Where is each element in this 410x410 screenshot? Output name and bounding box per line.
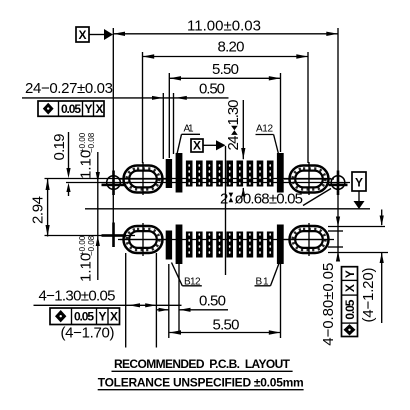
ext line right oval x=308 bbox=[307, 52, 309, 163]
dim line pad length x=243.3 bbox=[242, 100, 244, 159]
bottom hole row line y=235.5 bbox=[45, 235, 136, 237]
pad B1 bbox=[277, 225, 284, 265]
pad A12 bbox=[277, 153, 284, 193]
svg-text:5.50: 5.50 bbox=[212, 61, 239, 78]
dim 4-0.80±0.05 rotated text bbox=[320, 263, 337, 346]
bottom oval row line y=239.5 bbox=[120, 239, 330, 241]
dim 5.50 line bbox=[169, 77, 280, 79]
svg-text:0.05: 0.05 bbox=[74, 310, 94, 324]
dim 0.50 bottom line bbox=[179, 309, 228, 311]
oval pad top-right bbox=[284, 162, 334, 195]
pad A9 bbox=[247, 161, 254, 187]
svg-text:Y: Y bbox=[343, 270, 357, 278]
bottom ext lines from oval slot bbox=[125, 253, 127, 348]
svg-text:24−0.27±0.03: 24−0.27±0.03 bbox=[25, 80, 113, 97]
ext line left oval x=142.5 bbox=[142, 52, 144, 163]
pad B8 bbox=[206, 232, 213, 258]
pad B12col1 bbox=[166, 231, 172, 260]
pad B11 bbox=[176, 225, 183, 265]
dim 1.10 +0.00/-0.08 rotated text top bbox=[78, 132, 97, 179]
ext line right hole lower part bbox=[337, 170, 339, 256]
dim 8.20 line bbox=[143, 56, 309, 58]
pad A3 bbox=[186, 161, 193, 187]
gdt frame bottom-left bbox=[50, 308, 120, 325]
pad B2 bbox=[267, 232, 274, 258]
bottom-right oval ext lines bbox=[328, 226, 385, 228]
pad A4 bbox=[196, 161, 203, 187]
pad B10 bbox=[186, 232, 193, 258]
dim 11.00 line bbox=[113, 33, 338, 35]
dim 0.19 line bbox=[68, 132, 70, 174]
svg-text:RECOMMENDED P.C.B. LAYOUT: RECOMMENDED P.C.B. LAYOUT bbox=[114, 357, 291, 371]
dim 1.10 line bottom bbox=[96, 236, 100, 247]
pad B4 bbox=[247, 232, 254, 258]
dim 24*1.30 rotated text bbox=[225, 100, 242, 151]
gdt frame right vertical bbox=[342, 267, 358, 337]
top oval row line y=178.5 bbox=[45, 178, 332, 180]
svg-text:(4−1.70): (4−1.70) bbox=[61, 325, 115, 342]
svg-text:−0.08: −0.08 bbox=[87, 132, 96, 153]
svg-text:0.05: 0.05 bbox=[61, 102, 81, 116]
svg-text:0.19: 0.19 bbox=[51, 134, 68, 161]
svg-text:Y: Y bbox=[85, 102, 93, 116]
dim (4-1.20) line x=381.7 bbox=[381, 210, 383, 226]
svg-text:1.30: 1.30 bbox=[225, 100, 242, 126]
pad B9 bbox=[196, 232, 203, 258]
dim 5.50 bottom line bbox=[169, 332, 280, 334]
svg-text:X: X bbox=[96, 102, 104, 116]
pad A8 bbox=[237, 161, 244, 187]
pads bottom row bbox=[166, 225, 284, 265]
datum X flag top-left bbox=[76, 27, 113, 42]
dim 0.19 rotated text bbox=[51, 134, 68, 161]
datum Y flag right bbox=[352, 172, 366, 209]
svg-text:ø0.68±0.05: ø0.68±0.05 bbox=[235, 191, 304, 208]
pads top row bbox=[166, 153, 284, 193]
pad A2 bbox=[176, 153, 183, 193]
pad A11 bbox=[267, 161, 274, 187]
ext line right hole x=338 bbox=[337, 28, 339, 170]
svg-text:A1: A1 bbox=[184, 124, 194, 135]
ref dim (4-1.20) rotated text bbox=[360, 268, 377, 323]
svg-text:Y: Y bbox=[355, 176, 363, 190]
svg-text:+0.00: +0.00 bbox=[78, 235, 87, 256]
svg-text:2: 2 bbox=[220, 191, 228, 208]
hole top-left ø0.68 bbox=[107, 176, 121, 190]
svg-text:5.50: 5.50 bbox=[213, 317, 240, 334]
svg-text:4−1.30±0.05: 4−1.30±0.05 bbox=[39, 288, 116, 305]
svg-text:0.50: 0.50 bbox=[199, 81, 225, 98]
bottom ext lines from pads bbox=[168, 264, 170, 338]
svg-text:(4−1.20): (4−1.20) bbox=[360, 268, 377, 323]
ext line left hole lower part bbox=[112, 170, 114, 247]
dim 4-0.80 arrows on x=338 bbox=[336, 217, 340, 228]
center horizontal line datum Y bbox=[85, 208, 370, 210]
svg-text:−0.08: −0.08 bbox=[87, 235, 96, 256]
pad B5 bbox=[237, 232, 244, 258]
svg-text:1.10: 1.10 bbox=[78, 253, 95, 282]
dim 2.94 rotated text bbox=[30, 196, 47, 224]
hole top-right ø0.68 bbox=[331, 176, 345, 190]
pad A10 bbox=[257, 161, 264, 187]
svg-text:1.10: 1.10 bbox=[78, 150, 95, 179]
svg-text:4−0.80±0.05: 4−0.80±0.05 bbox=[320, 263, 337, 346]
svg-text:2.94: 2.94 bbox=[30, 196, 47, 224]
svg-text:24: 24 bbox=[225, 136, 242, 151]
oval pad top-left bbox=[118, 162, 168, 195]
dim 0.50 line / underline bbox=[22, 97, 229, 99]
ext line pad A1 x=169.3 bbox=[168, 73, 170, 158]
datum X flag center bbox=[191, 139, 226, 153]
svg-text:A12: A12 bbox=[256, 124, 273, 135]
pad B3 bbox=[257, 232, 264, 258]
svg-text:X: X bbox=[193, 139, 201, 153]
gdt frame top-left bbox=[38, 101, 104, 116]
pad B7 bbox=[216, 232, 223, 258]
dim 1.10 +0.00/-0.08 rotated text bottom bbox=[78, 235, 97, 282]
pad A6 bbox=[216, 161, 223, 187]
dim 2.94 line bbox=[47, 179, 49, 237]
dim 1.10 line top bbox=[97, 152, 99, 280]
oval pad bottom-left bbox=[118, 223, 168, 256]
dim 4-1.30 line bbox=[34, 304, 182, 306]
svg-text:Y: Y bbox=[99, 310, 107, 324]
svg-text:0.50: 0.50 bbox=[199, 293, 226, 310]
svg-text:0.05: 0.05 bbox=[343, 299, 357, 319]
ext line pad A12 x=280.5 bbox=[280, 73, 282, 152]
pad A1 bbox=[166, 159, 172, 188]
pad A7 bbox=[226, 161, 233, 187]
oval pad bottom-right bbox=[284, 223, 334, 256]
svg-text:X: X bbox=[79, 28, 87, 42]
center vertical line datum X bbox=[225, 146, 227, 275]
top hole row line y=182.5 bbox=[66, 182, 350, 184]
pad A5 bbox=[206, 161, 213, 187]
svg-text:X: X bbox=[110, 310, 118, 324]
svg-text:TOLERANCE UNSPECIFIED ±0.05mm: TOLERANCE UNSPECIFIED ±0.05mm bbox=[98, 375, 304, 389]
ext lines pad1 edges bbox=[162, 93, 164, 159]
ext line left hole x=113.3 bbox=[112, 28, 114, 170]
leader to hole bbox=[303, 189, 331, 206]
pad B6 bbox=[226, 232, 233, 258]
cross bottom-left bbox=[102, 234, 127, 237]
svg-text:X: X bbox=[343, 284, 357, 292]
svg-text:8.20: 8.20 bbox=[218, 39, 245, 56]
svg-text:11.00±0.03: 11.00±0.03 bbox=[187, 18, 261, 35]
svg-text:+0.00: +0.00 bbox=[78, 132, 87, 153]
